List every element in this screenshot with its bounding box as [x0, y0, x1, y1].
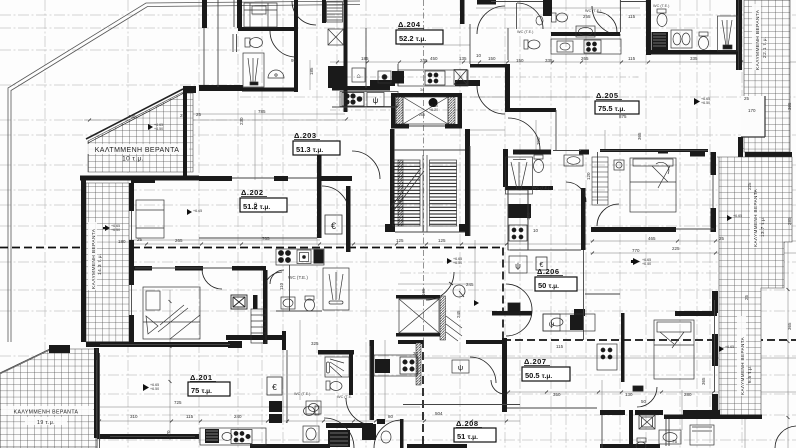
grid axis v3 — [237, 0, 239, 448]
balcony edge thin — [403, 404, 520, 406]
counter201 vertical — [251, 309, 266, 343]
dim vert x255 — [254, 110, 256, 180]
bed1 canopy — [146, 316, 158, 334]
ticks x745 — [744, 148, 747, 419]
grid axis v2 — [127, 0, 129, 448]
grid axis v21 — [696, 0, 698, 448]
svg-text:300: 300 — [536, 137, 541, 145]
stair treads left flight — [393, 163, 420, 224]
grid axis v10 — [585, 0, 587, 448]
duct2 vent diagonals — [446, 316, 462, 341]
wall thin V x620 — [620, 0, 622, 32]
elevator X cross — [403, 97, 448, 124]
svg-text:335: 335 — [545, 58, 553, 63]
boundary line inner — [11, 5, 360, 343]
svg-text:WC (T.E.): WC (T.E.) — [585, 9, 602, 13]
marker elevator — [429, 98, 438, 107]
stair bottom stub L — [385, 224, 395, 232]
wall balcony chunk — [131, 176, 155, 183]
veranda B parapet wall — [81, 176, 86, 342]
door arc bedroom1 — [202, 269, 222, 289]
wall kitchen208 stub — [398, 340, 423, 344]
svg-text:Δ.201: Δ.201 — [190, 373, 213, 382]
door arc D208 entry — [374, 420, 402, 448]
wall duct2 top H — [396, 295, 440, 299]
wall bedroom1 top H chunk1 — [134, 266, 152, 271]
basin wc-te — [576, 26, 595, 37]
dim vert right — [787, 0, 789, 448]
svg-text:ψ: ψ — [549, 320, 554, 329]
wall bath bottom-left chunk — [199, 85, 243, 91]
svg-text:285: 285 — [787, 217, 792, 225]
stairwell left wall V — [390, 129, 395, 232]
shower D208 — [325, 357, 349, 377]
svg-text:325: 325 — [311, 341, 319, 346]
D207 wall thin y416 — [507, 407, 597, 409]
svg-text:130: 130 — [625, 392, 633, 397]
dim vert x385 — [384, 340, 386, 420]
svg-text:+6.65: +6.65 — [193, 209, 202, 213]
dim vert x740 — [744, 148, 746, 448]
window D205bed bottom — [676, 228, 714, 230]
wall corner thin x669 — [668, 419, 670, 446]
grid axis v4 — [316, 0, 318, 448]
dim line top right — [330, 61, 796, 63]
wall bedroom1 top H chunk2 — [175, 266, 203, 271]
wall D207 bottom H — [600, 410, 625, 415]
bed2 D205 — [630, 158, 676, 212]
wall hall205 right thin — [555, 110, 557, 150]
svg-text:80: 80 — [388, 414, 394, 419]
door arc wc201b — [264, 272, 282, 290]
svg-text:125: 125 — [396, 238, 404, 243]
wall top chunk a — [543, 0, 552, 16]
dim vert mid — [282, 340, 284, 420]
door leaf wc-te — [516, 3, 518, 29]
svg-text:⌂: ⌂ — [356, 73, 360, 80]
property boundary double diagonal line — [8, 1, 360, 342]
black box202 — [314, 250, 324, 264]
toilet wc-bottom — [304, 406, 320, 416]
wall D201 bottom H — [97, 434, 199, 439]
dim line y430 — [0, 429, 97, 431]
toilet bath205b — [699, 32, 709, 50]
svg-text:+6.50: +6.50 — [111, 228, 120, 232]
dim line top y8 — [476, 7, 640, 9]
svg-text:WC (T.E.: WC (T.E. — [337, 395, 352, 399]
wall D207 corner chunk — [574, 309, 585, 316]
dim vert x605 — [604, 130, 606, 150]
kitchen203 counter — [340, 92, 398, 107]
wall bath right V — [294, 0, 298, 92]
wall WC201 chunk — [228, 341, 242, 348]
stair center stringer — [422, 155, 424, 232]
veranda C right wall — [96, 349, 98, 448]
door leaf D206 — [508, 303, 520, 313]
window bath left V — [232, 34, 234, 52]
wall x583 thin — [583, 250, 585, 340]
dim line bottom — [98, 420, 520, 422]
wall corridor205 H — [470, 64, 506, 68]
toilet D208 — [326, 381, 342, 391]
svg-text:350: 350 — [553, 392, 561, 397]
setback line vertical step — [502, 248, 504, 341]
svg-text:10 τ.μ.: 10 τ.μ. — [122, 156, 144, 163]
wall D206bath bottom H — [505, 186, 553, 190]
basin pair bath205 — [671, 30, 692, 48]
ticks y119 — [88, 118, 348, 122]
marker veranda A — [148, 124, 153, 130]
svg-text:30: 30 — [413, 351, 419, 356]
veranda A corner wall — [183, 86, 196, 93]
window D202 left — [131, 211, 133, 240]
svg-text:+4.50: +4.50 — [154, 127, 163, 131]
svg-text:280: 280 — [684, 392, 692, 397]
dim vert x310 — [309, 60, 311, 90]
wall y150 chunk b — [579, 150, 589, 155]
grid axis h12 — [0, 134, 796, 136]
veranda C top wall — [49, 345, 70, 353]
black box 201a — [269, 401, 282, 412]
ticks y253r — [591, 252, 760, 255]
door arc bath205b — [597, 12, 617, 32]
svg-text:22.1 τ.μ.: 22.1 τ.μ. — [762, 36, 768, 58]
kitchen207 counter — [597, 344, 617, 370]
dim line bottom2 — [98, 406, 420, 408]
dim vert x600 — [601, 380, 603, 410]
wall veranda A right V — [183, 92, 187, 176]
kitchen202 counter — [276, 249, 324, 265]
basin wc201 — [281, 297, 295, 309]
black appliance204 — [392, 71, 404, 84]
wall D208 left thin — [369, 346, 371, 420]
svg-text:125: 125 — [438, 238, 446, 243]
veranda C text — [1, 406, 93, 426]
svg-text:370: 370 — [166, 430, 171, 438]
grid axis h9 — [0, 414, 796, 416]
svg-text:725: 725 — [174, 400, 182, 405]
wall D202 top H chunk2 — [274, 176, 288, 181]
dim line top left — [84, 119, 345, 121]
ticks y241r — [591, 240, 787, 243]
wall WC201 left thin — [286, 350, 288, 423]
window D202 top a — [232, 177, 274, 179]
grid axis v5 — [336, 0, 338, 448]
svg-text:+6.65: +6.65 — [725, 345, 734, 349]
wall D202 top H chunk1 — [199, 176, 232, 181]
stove202 — [278, 250, 290, 262]
hall205 thin V x508 — [507, 28, 509, 60]
door arc D205 hall — [566, 182, 586, 202]
svg-text:51 τ.μ.: 51 τ.μ. — [457, 432, 478, 441]
shower D206 — [506, 157, 533, 194]
door arc D206 entry lower — [506, 310, 532, 336]
marker bedroom1 — [187, 209, 192, 215]
grid axis h18 — [0, 439, 796, 441]
wall D207 top thin — [585, 293, 620, 295]
toilet D207 — [636, 438, 646, 448]
svg-text:115: 115 — [556, 344, 564, 349]
svg-text:+6.50: +6.50 — [453, 261, 462, 265]
bed1 D201 — [143, 287, 200, 339]
svg-text:310: 310 — [130, 414, 138, 419]
wall D201 left V — [94, 348, 99, 438]
door arc corridor entry — [477, 6, 505, 34]
svg-text:ΚΑΛΥΜΜΕΝΗ ΒΕΡΑΝΤΑ: ΚΑΛΥΜΜΕΝΗ ΒΕΡΑΝΤΑ — [14, 410, 79, 416]
wall shaft black box — [328, 66, 344, 88]
svg-text:Δ.202: Δ.202 — [241, 188, 264, 197]
svg-text:150: 150 — [516, 58, 524, 63]
grid axis v1 — [44, 0, 46, 448]
svg-text:ψ: ψ — [458, 363, 463, 372]
svg-text:€: € — [331, 221, 336, 231]
grid axis v14 — [741, 0, 743, 448]
fixtures bottom right — [659, 425, 714, 445]
elevator door line — [409, 125, 445, 127]
sink psi 206b — [543, 314, 560, 331]
dim vert x300 — [299, 320, 301, 400]
wall WC201 mid thin — [289, 265, 291, 311]
window top edge b — [620, 1, 646, 3]
grid axis h10 — [0, 27, 796, 29]
stair bottom stub R — [459, 224, 469, 232]
svg-text:365: 365 — [637, 132, 642, 140]
svg-text:51.3 τ.μ.: 51.3 τ.μ. — [296, 145, 323, 154]
marker veranda E2 — [727, 215, 732, 221]
door arc wc-te top — [517, 3, 543, 29]
wall D207wc left thin — [601, 415, 603, 448]
veranda E bottom wall — [664, 415, 762, 420]
svg-text:240: 240 — [234, 414, 242, 419]
toilet bath203 — [245, 38, 263, 48]
svg-text:10: 10 — [476, 53, 482, 58]
black box206b — [570, 315, 583, 330]
wall bottom edge1 — [250, 444, 330, 448]
dim line mid right — [590, 240, 796, 242]
wall D207bed right V chunk1 — [712, 291, 718, 313]
svg-text:34: 34 — [420, 88, 424, 92]
euro box 201 — [267, 377, 282, 395]
grid axis h17 — [0, 393, 796, 395]
dim vert x475 — [474, 240, 476, 300]
wall bath top H — [238, 27, 298, 31]
sink202 — [297, 250, 311, 264]
sink D206b counter — [543, 314, 595, 331]
svg-text:25: 25 — [744, 294, 749, 300]
wall bath205 bottom H — [647, 50, 740, 55]
stove206 — [509, 225, 527, 241]
elevator axis dashed vertical — [423, 0, 425, 340]
stove208 — [400, 357, 418, 374]
stair landing thin — [394, 149, 465, 151]
door arc stair west — [426, 272, 454, 300]
grid axis h20 — [400, 272, 796, 274]
setback line left horizontal — [0, 247, 503, 249]
D206 bath top thin — [553, 150, 581, 152]
elevator axis dashed horizontal — [330, 109, 530, 111]
grid axis h15 — [0, 289, 796, 291]
svg-text:25: 25 — [137, 237, 143, 242]
svg-text:+6.20: +6.20 — [429, 108, 438, 112]
marker D207 — [474, 300, 479, 306]
wall shaft left V — [322, 0, 326, 23]
marker veranda E — [719, 346, 724, 352]
svg-text:310: 310 — [253, 202, 258, 210]
black box 201b — [269, 414, 282, 423]
closet D205 striped — [592, 157, 608, 205]
dim line y284 — [398, 283, 470, 285]
svg-text:504: 504 — [435, 411, 443, 416]
marker veranda B — [105, 225, 110, 231]
shaft X box small — [328, 29, 344, 45]
svg-text:25: 25 — [196, 112, 202, 117]
svg-text:225: 225 — [747, 182, 752, 190]
grid axis h19 — [0, 204, 796, 206]
wall D206bath left V — [503, 149, 508, 187]
svg-text:465: 465 — [648, 236, 656, 241]
wall y150 chunk d — [690, 151, 705, 157]
grid axis v19 — [565, 0, 567, 448]
svg-text:365: 365 — [787, 322, 792, 330]
grid axis v20 — [619, 0, 621, 448]
wall D205bed top H — [600, 149, 708, 152]
grid axis v15 — [198, 0, 200, 448]
svg-text:120: 120 — [526, 212, 531, 220]
wall duct2 bottom H — [396, 333, 440, 337]
toilet bath204b — [552, 13, 568, 22]
svg-text:+6.50: +6.50 — [642, 262, 651, 266]
fridge corridor — [352, 68, 365, 82]
wall bedroom1 top H chunk3 — [232, 266, 266, 271]
svg-text:75 τ.μ.: 75 τ.μ. — [191, 386, 212, 395]
stove201 — [231, 430, 252, 444]
door arc small x491 — [491, 380, 505, 394]
grid axis h14 — [0, 225, 796, 227]
elevator bottom wall R — [445, 124, 462, 129]
window veranda D left — [738, 0, 740, 70]
stove204 — [425, 71, 445, 85]
D206 kitchen counter V — [507, 190, 509, 250]
wall vestibule V — [346, 186, 351, 252]
wall WC201 bottom thin — [276, 310, 322, 312]
stair flight left box — [393, 160, 420, 226]
elevator bottom wall L — [391, 124, 409, 129]
svg-text:400: 400 — [128, 114, 136, 119]
toilet D206 — [534, 155, 544, 173]
wall D208 bottom chunk — [326, 423, 373, 428]
grid axis h4 — [0, 119, 400, 121]
wall D204 left thin — [397, 64, 399, 86]
svg-text:25: 25 — [180, 113, 186, 118]
kitchen208 counter — [374, 355, 417, 376]
svg-text:245: 245 — [466, 282, 474, 287]
door arc wc bottom — [324, 418, 354, 448]
elevator left wall — [391, 93, 396, 128]
window D202 top b — [288, 177, 317, 179]
dim line y358 — [420, 357, 796, 359]
bed3 D207 — [654, 320, 694, 379]
wall D202 top H chunk3 — [317, 176, 352, 181]
veranda D text — [752, 4, 768, 70]
sink204 — [378, 71, 391, 83]
svg-text:335: 335 — [690, 56, 698, 61]
dim line left 2 — [160, 113, 345, 115]
door arc hall205 — [477, 86, 505, 114]
veranda A hatched (top-left diagonal) — [85, 86, 196, 172]
shower bath205 — [718, 16, 738, 51]
veranda C hatched (bottom-left) — [0, 345, 97, 448]
svg-text:+6.50: +6.50 — [150, 387, 159, 391]
svg-text:+6.65: +6.65 — [733, 214, 742, 218]
stair break line — [391, 168, 424, 210]
grid axis h2 — [0, 49, 240, 51]
euro box 202 — [325, 215, 342, 234]
ticks y392r — [507, 391, 715, 394]
svg-text:170: 170 — [748, 108, 756, 113]
dim line y97 — [470, 96, 590, 98]
svg-text:ΚΑΛΥΜΜΕΝΗ ΒΕΡΑΝΤΑ: ΚΑΛΥΜΜΕΝΗ ΒΕΡΑΝΤΑ — [753, 188, 758, 247]
sink D206 — [564, 155, 583, 166]
euro box 206 — [536, 257, 547, 270]
veranda D left wall low — [738, 137, 743, 157]
window bedroom1 top — [135, 267, 232, 269]
svg-text:165: 165 — [421, 288, 426, 296]
svg-text:245: 245 — [456, 310, 461, 318]
veranda D notch wall — [741, 96, 765, 137]
svg-text:95: 95 — [291, 58, 297, 63]
svg-text:Δ.208: Δ.208 — [456, 419, 479, 428]
window D201 bottom — [110, 436, 195, 438]
wall bottom edge3 — [600, 444, 660, 448]
grid axis h8 — [0, 374, 796, 376]
grid axis v11 — [645, 0, 647, 448]
svg-text:50.5 τ.μ.: 50.5 τ.μ. — [525, 371, 552, 380]
marker hall — [447, 258, 452, 264]
hatch wall kitchen208 — [416, 343, 421, 385]
grid axis v12 — [679, 0, 681, 448]
door arc D205 bedroom — [597, 204, 619, 226]
svg-text:265: 265 — [419, 113, 425, 117]
kitchen205 counter — [551, 39, 621, 54]
wall corridor x470 lower — [469, 146, 471, 236]
wall stub wc201 — [253, 295, 258, 309]
marker D205living — [633, 258, 640, 265]
door arc bath203 — [270, 31, 296, 57]
svg-text:WC (T.E.): WC (T.E.) — [517, 30, 534, 34]
grid axis v18 — [519, 0, 521, 448]
hatch wall elevator R — [448, 97, 455, 124]
wall top-left thin V x218 — [217, 0, 219, 87]
svg-text:75.5 τ.μ.: 75.5 τ.μ. — [598, 104, 625, 113]
door arc D208 bath — [346, 398, 373, 425]
dim vert left — [169, 290, 171, 440]
window top-left V — [233, 0, 235, 27]
wall bottom edge2 — [407, 444, 467, 448]
door arc wc201 small — [270, 270, 284, 284]
svg-text:75: 75 — [672, 439, 678, 444]
dim line mid right2 — [590, 252, 796, 254]
washer D208 — [328, 430, 350, 447]
wall top H piece — [477, 0, 496, 5]
svg-text:265: 265 — [175, 238, 183, 243]
svg-text:6.5 τ.μ.: 6.5 τ.μ. — [747, 365, 752, 383]
window D205bed right — [712, 175, 714, 208]
veranda D hatched (top-right) — [690, 0, 792, 157]
sink bath203 — [268, 70, 284, 78]
wall bedroom1 right V — [263, 270, 268, 344]
wall right parapet V — [736, 0, 742, 70]
veranda E hatched (right middle) — [664, 157, 792, 419]
